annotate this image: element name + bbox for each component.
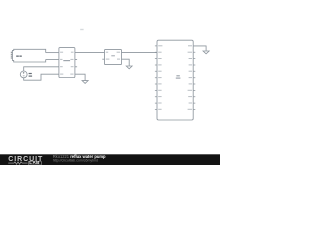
svg-text:http://circuitlab.com/c6mytmd: http://circuitlab.com/c6mytmd bbox=[53, 159, 98, 163]
svg-text:LAB: LAB bbox=[29, 160, 40, 165]
